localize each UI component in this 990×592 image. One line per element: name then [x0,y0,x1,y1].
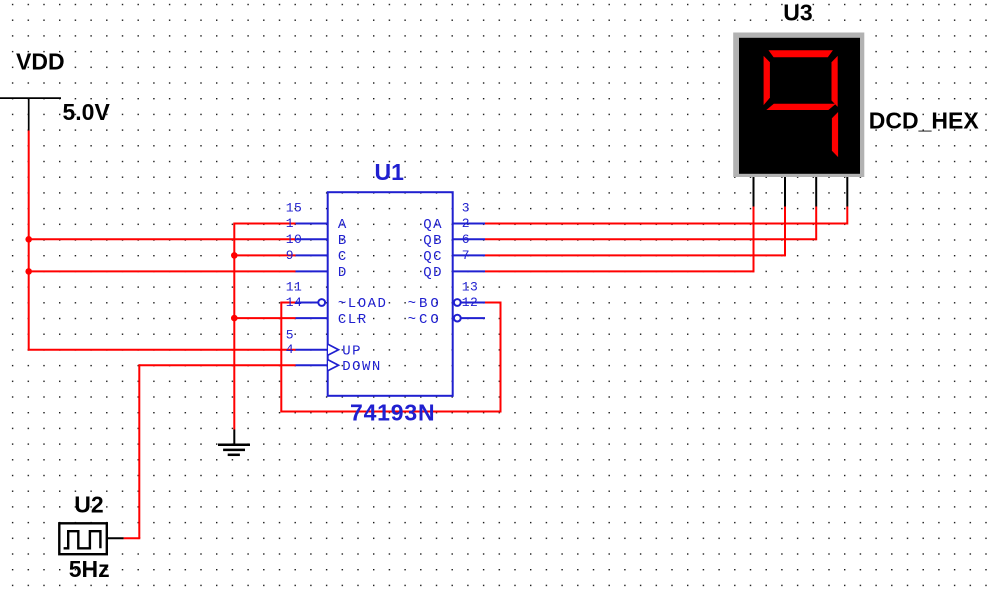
segment a [769,50,833,57]
svg-text:9: 9 [286,248,294,263]
svg-text:U3: U3 [783,0,812,26]
wire QD to display pin1 [485,207,754,273]
junction GND/CLR [231,315,238,322]
svg-text:VDD: VDD [16,49,65,75]
wire ground rail vertical [233,224,235,430]
svg-text:10: 10 [286,232,302,247]
pin stub QB [453,238,485,240]
wire DOWN row [139,364,295,366]
segment f [764,56,770,105]
segment b [832,56,838,107]
svg-text:~LOAD: ~LOAD [338,296,388,312]
pin stub A [296,223,328,225]
clock waveform [64,531,101,548]
pin stub CLR [296,317,328,319]
pin stub D [296,270,328,272]
svg-text:QA: QA [423,217,443,233]
wire CLR row [234,317,295,319]
display pin 4 stub [846,177,848,207]
ground [218,430,250,455]
svg-text:QB: QB [423,233,443,249]
pin stub DOWN with clock triangle [296,360,339,371]
junction VDD/B [25,236,32,243]
wire QC to display pin2 [485,207,785,257]
svg-text:~BO: ~BO [408,296,442,312]
wire UP row from VDD [28,349,296,351]
pin stub UP with clock triangle [296,344,339,355]
wire clock vertical [138,364,140,538]
svg-text:13: 13 [462,279,478,294]
pin stub QC [453,254,485,256]
clock pin stub [107,537,124,539]
wire C row [234,254,295,256]
junction VDD/D [25,268,32,275]
display U3 frame [733,33,864,178]
clock source U2 body [59,523,107,554]
pin stub ~LOAD with bubble [296,299,326,306]
svg-text:6: 6 [462,232,470,247]
svg-text:C: C [338,249,348,265]
wire QA to display pin4 [485,207,847,225]
svg-text:A: A [338,217,348,233]
svg-text:QC: QC [423,249,443,265]
svg-text:U1: U1 [375,159,405,185]
svg-text:5.0V: 5.0V [63,99,111,125]
svg-text:7: 7 [462,248,470,263]
svg-text:12: 12 [462,295,478,310]
segment g [766,104,836,110]
pin stub ~BO with bubble [454,299,485,306]
svg-text:74193N: 74193N [350,400,435,426]
svg-text:5Hz: 5Hz [69,556,110,582]
wire ~LOAD feedback loop [280,302,501,412]
wire A row [233,223,295,225]
svg-text:1: 1 [286,216,294,231]
display pin 2 stub [784,177,786,207]
display pin 1 stub [753,177,755,207]
pin stub QA [453,223,485,225]
svg-text:DOWN: DOWN [342,359,382,375]
wire VDD rail vertical [28,131,30,350]
svg-text:14: 14 [286,295,302,310]
segment c [832,112,838,157]
svg-text:5: 5 [286,328,294,343]
wire QB to display pin3 [485,207,816,241]
svg-text:15: 15 [286,200,302,215]
wire D row from VDD [29,270,296,272]
svg-text:QD: QD [423,265,443,281]
svg-text:11: 11 [286,279,302,294]
pin stub C [296,254,328,256]
pin stub QD [453,270,485,272]
svg-text:CLR: CLR [338,312,368,328]
pin stub ~CO with bubble [454,315,485,322]
svg-text:DCD_HEX: DCD_HEX [869,107,980,133]
svg-text:4: 4 [286,342,294,357]
svg-text:UP: UP [342,343,362,359]
op U1 74193N counter body [328,192,453,396]
svg-text:~CO: ~CO [408,312,442,328]
wire clock stub red [124,537,141,539]
pin stub B [296,238,328,240]
display pin 3 stub [815,177,817,207]
power VDD symbol [0,98,61,130]
svg-text:B: B [338,233,348,249]
svg-text:D: D [338,265,348,281]
svg-text:U2: U2 [74,491,103,517]
svg-text:3: 3 [462,200,470,215]
wire B row from VDD [29,238,296,240]
junction GND/C [231,252,238,259]
svg-text:2: 2 [462,216,470,231]
